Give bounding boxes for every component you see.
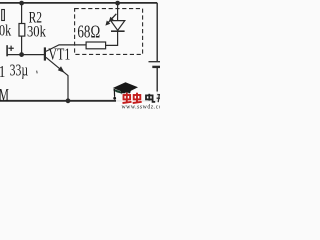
watermark graduation cap head <box>121 91 131 95</box>
watermark text chong 2 (red bug char) <box>133 93 142 103</box>
wire R3 right lead up to LED cathode <box>106 32 118 46</box>
watermark graduation cap tassel <box>113 89 115 97</box>
LED VD triangle <box>111 21 125 31</box>
svg-text:0k: 0k <box>0 22 12 40</box>
transistor VT1 emitter arrowhead <box>58 66 65 73</box>
stray scan mark <box>36 71 39 74</box>
LED light arrow 2 <box>109 14 116 22</box>
wire right side from top rail down to battery <box>156 3 158 61</box>
svg-text:www.sswdz.com: www.sswdz.com <box>122 105 161 110</box>
watermark graduation cap board <box>113 82 138 93</box>
svg-text:1: 1 <box>0 63 5 82</box>
watermark white backing <box>116 92 160 106</box>
transistor VT1 emitter lead <box>46 57 68 75</box>
node E: junction dot emitter / bottom rail <box>66 98 71 103</box>
LED light arrow 1 <box>105 18 112 26</box>
node A: junction dot top rail and R2 <box>19 1 24 6</box>
watermark graduation cap underside band <box>114 89 125 94</box>
svg-text:30k: 30k <box>27 23 47 41</box>
LED VD cathode bar <box>111 30 125 32</box>
wire emitter down to bottom rail <box>67 75 69 101</box>
resistor R1 (cut off at left image edge) <box>2 10 5 21</box>
node C: junction dot LED / top rail <box>115 1 120 6</box>
watermark text chong 1 (red bug char) <box>123 93 132 103</box>
svg-text:68Ω: 68Ω <box>77 23 100 42</box>
watermark text dian (dark char) <box>146 94 155 102</box>
LED VD anode wire to top rail <box>117 3 119 21</box>
wire battery negative down to bottom rail <box>156 67 158 101</box>
capacitor C1 polarity mark + <box>8 46 13 51</box>
svg-text:33µ: 33µ <box>10 62 28 81</box>
resistor R3 68 ohm body <box>86 42 106 49</box>
svg-text:VT1: VT1 <box>48 45 70 64</box>
transistor VT1 collector lead to 68 ohm resistor <box>46 45 86 52</box>
label C1 value 33u (cut at left edge) <box>0 63 5 82</box>
wire R2 bottom lead <box>21 36 23 55</box>
battery GB negative plate (cut at right edge) <box>152 66 160 68</box>
label VT1 designator <box>48 45 70 64</box>
label R2 designator <box>29 9 43 26</box>
transistor VT1 base bar <box>44 47 46 60</box>
label M (cut label at bottom left) <box>0 85 9 105</box>
wire bottom supply rail <box>0 100 158 102</box>
capacitor C1 positive plate (cut at left image edge) <box>6 45 8 56</box>
node B: junction dot R2 / C1 / VT1 base <box>19 52 24 57</box>
resistor R2 <box>19 24 25 37</box>
battery GB positive plate (cut at right edge) <box>149 61 161 63</box>
label R3 value 68 ohm <box>77 23 100 42</box>
label R2 value 30k <box>27 23 47 41</box>
label R1 value 30k (cut at left edge) <box>0 22 12 40</box>
wire R2 top lead <box>21 3 23 24</box>
svg-text:M: M <box>0 85 9 105</box>
wire C1 to VT1 base <box>7 54 44 56</box>
wire top supply rail <box>0 2 157 4</box>
dashed enclosure box (opto indicator) <box>75 9 143 55</box>
watermark text zi (dark char cut at right edge) <box>157 95 161 103</box>
